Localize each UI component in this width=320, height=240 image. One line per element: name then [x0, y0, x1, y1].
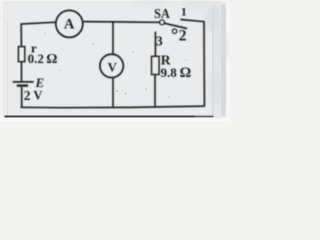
svg-text:3: 3 — [156, 34, 163, 49]
svg-text:E: E — [35, 75, 45, 90]
svg-text:SA: SA — [154, 5, 170, 21]
svg-text:V: V — [33, 89, 42, 103]
svg-text:2: 2 — [179, 28, 187, 45]
svg-text:1: 1 — [181, 4, 187, 18]
svg-text:V: V — [108, 60, 117, 74]
svg-text:Ω: Ω — [46, 52, 57, 67]
svg-text:0.2: 0.2 — [28, 51, 44, 66]
svg-text:Ω: Ω — [180, 65, 192, 81]
svg-text:9.8: 9.8 — [161, 65, 178, 80]
svg-text:A: A — [64, 17, 75, 33]
svg-text:2: 2 — [24, 88, 31, 103]
